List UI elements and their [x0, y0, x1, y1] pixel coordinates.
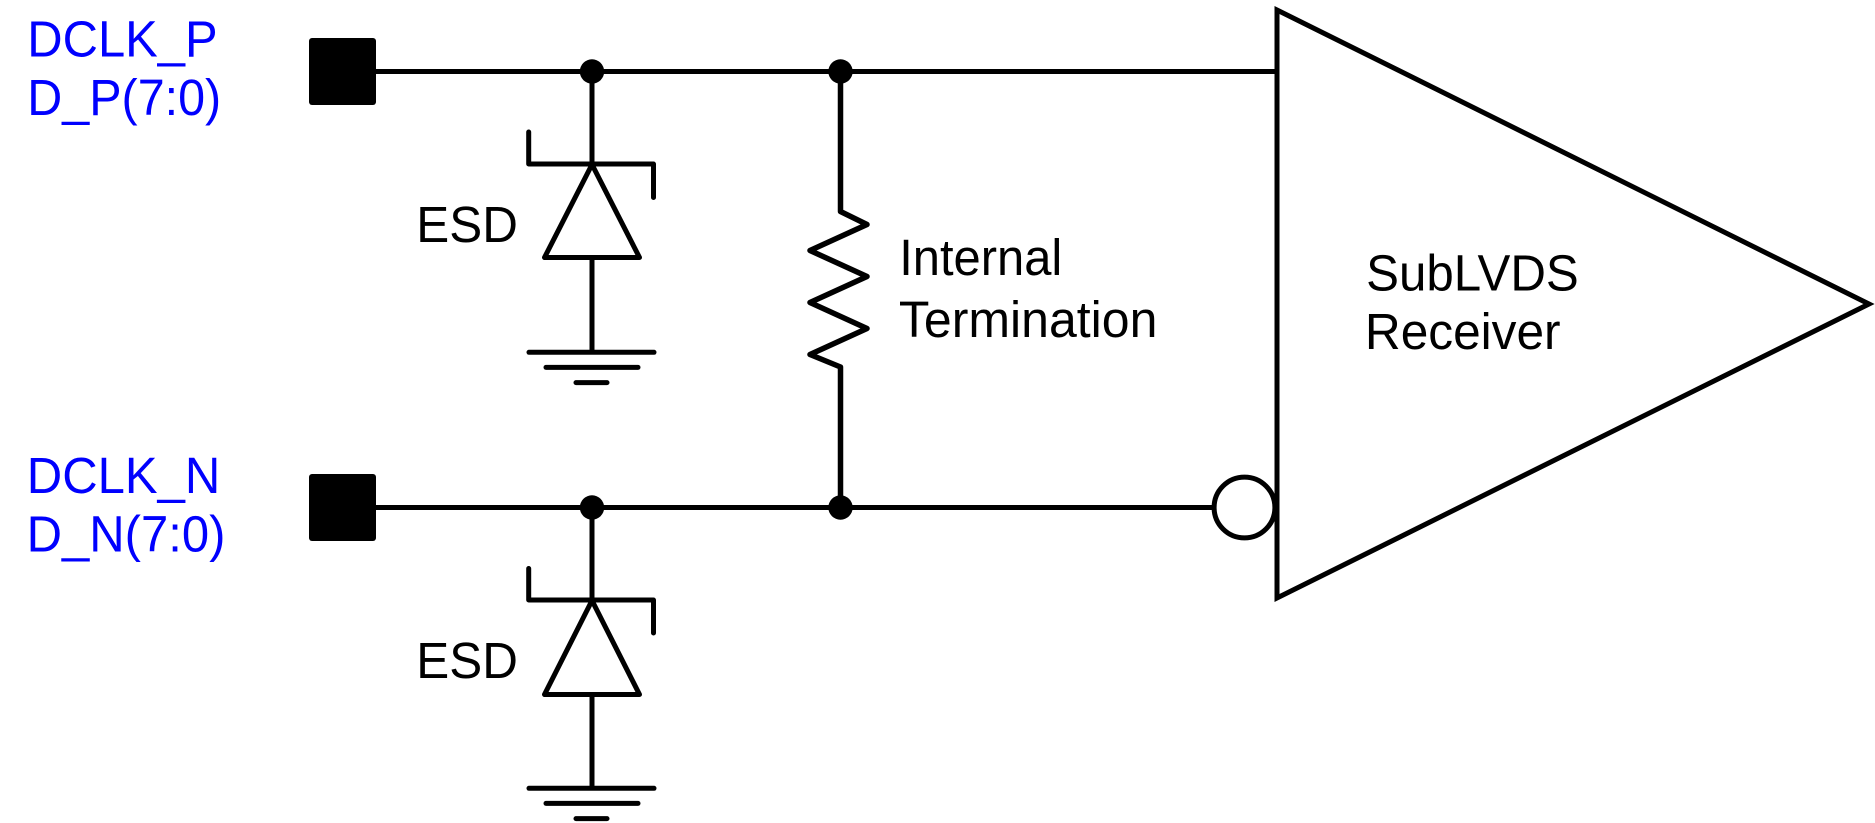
node label DCLK_P / D_P(7:0)	[27, 11, 221, 127]
resistor R1 internal termination (vertical zigzag)	[810, 72, 867, 508]
svg-text:D_N(7:0): D_N(7:0)	[27, 506, 226, 563]
wire: D2 anode to ground	[590, 695, 595, 789]
op-amp U1 SubLVDS receiver triangle	[1277, 10, 1869, 598]
svg-text:DCLK_P: DCLK_P	[27, 11, 217, 68]
node junction dot bottom-left	[580, 495, 604, 519]
ESD diode D2 stub	[590, 508, 595, 601]
ESD diode D1 triangle	[545, 165, 640, 258]
svg-text:Internal: Internal	[899, 229, 1062, 286]
ESD diode D2 cathode bar with zener hooks	[529, 569, 654, 634]
svg-text:ESD: ESD	[416, 632, 518, 689]
svg-text:D_P(7:0): D_P(7:0)	[27, 69, 221, 126]
svg-text:DCLK_N: DCLK_N	[27, 447, 221, 504]
node junction dot top-left	[580, 59, 604, 83]
ground symbol for D2	[529, 788, 654, 818]
svg-text:Receiver: Receiver	[1365, 303, 1561, 360]
svg-text:ESD: ESD	[416, 196, 518, 253]
pad square bottom (DCLK_N input)	[309, 474, 376, 541]
wire: ESD1 stub	[590, 72, 595, 165]
inversion bubble on negative input	[1214, 477, 1275, 538]
wire: D1 anode to ground	[590, 258, 595, 353]
label SubLVDS Receiver	[1365, 245, 1579, 361]
svg-text:SubLVDS: SubLVDS	[1366, 245, 1579, 302]
ground symbol for D1	[529, 352, 654, 382]
pad square top (DCLK_P input)	[309, 38, 376, 105]
wire bottom: pad to bubble	[376, 505, 1215, 510]
node junction dot top-right (resistor)	[828, 59, 852, 83]
svg-text:Termination: Termination	[899, 291, 1158, 348]
node label DCLK_N / D_N(7:0)	[27, 447, 226, 563]
ESD diode D1 cathode bar with zener hooks	[529, 132, 654, 198]
node junction dot bottom-right (resistor)	[828, 495, 852, 519]
ESD diode D2 triangle	[545, 601, 640, 695]
label Internal Termination	[899, 229, 1158, 348]
wire top: pad to receiver	[376, 69, 1277, 74]
